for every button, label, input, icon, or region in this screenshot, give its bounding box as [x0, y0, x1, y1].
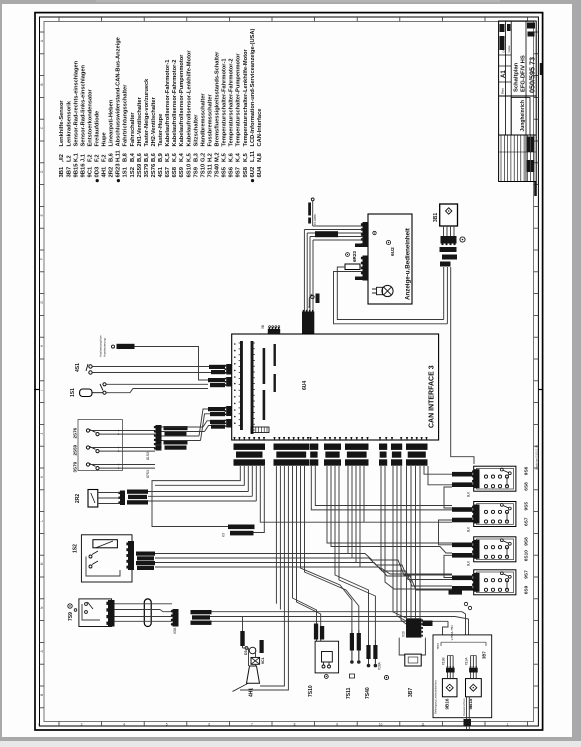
- svg-text:B,6: B,6: [109, 153, 115, 162]
- svg-text:7S40: 7S40: [365, 687, 371, 699]
- title block outline: [499, 21, 537, 182]
- svg-text:Fahrschalter: Fahrschalter: [130, 112, 136, 147]
- switch 7S40 Bremsfluessigkeitsstand: [368, 640, 370, 664]
- svg-text:1S2: 1S2: [73, 544, 79, 553]
- title block revision entries: [527, 137, 530, 153]
- svg-text:6S7: 6S7: [165, 166, 171, 177]
- wires XG8 to contactor block 1: [424, 466, 452, 474]
- wire CAN-L Anzeige to 3B1: [334, 272, 448, 324]
- svg-text:Bremsfluessigkeitsstands-Schal: Bremsfluessigkeitsstands-Schalter: [215, 51, 221, 147]
- connector XG3 on 6U4 bottom edge: [309, 437, 311, 441]
- connector XG6 on 6U4 bottom edge: [379, 437, 381, 441]
- svg-text:7B76: 7B76: [436, 643, 440, 650]
- wire CAN-H Anzeige to 3B1: [360, 266, 363, 268]
- svg-text:Handbremsschalter: Handbremsschalter: [200, 93, 206, 147]
- svg-text:3B7: 3B7: [482, 651, 487, 659]
- svg-text:Taster-Hupe: Taster-Hupe: [158, 114, 164, 147]
- connector X7 on CAN interface top: [302, 312, 314, 335]
- vertical wires down to connector X7: [303, 230, 305, 313]
- svg-text:Blatt: Blatt: [501, 88, 505, 94]
- svg-text:9S7: 9S7: [236, 166, 242, 177]
- frame grid tick marks: [40, 31, 45, 33]
- switch 4S1 Taster-Hupe: [89, 365, 92, 368]
- wire label bundle Anzeige: [315, 231, 338, 237]
- svg-text:L: L: [40, 520, 44, 522]
- svg-text:2H2-Ventilschalter: 2H2-Ventilschalter: [151, 96, 157, 146]
- wire labels 7S10: [314, 624, 318, 640]
- svg-text:1S1: 1S1: [70, 388, 76, 397]
- sensor 9B15 Sensor-Rad-rechts: [466, 679, 482, 697]
- wires XG2 down to brake switches: [275, 466, 277, 604]
- connector X31 under 3B1: [441, 236, 457, 244]
- capacitor 9C1 Entstoerkondensator: [251, 657, 260, 664]
- svg-text:EFG-DF/V HS: EFG-DF/V HS: [521, 55, 527, 92]
- svg-text:B,K: B,K: [467, 560, 471, 566]
- svg-text:Temperaturschalter-Pumpenmotor: Temperaturschalter-Pumpenmotor: [236, 53, 242, 147]
- wires 3S79 contacts: [90, 464, 155, 466]
- svg-text:Kabelaufrollsensor-Pumpenmotor: Kabelaufrollsensor-Pumpenmotor: [179, 54, 185, 147]
- wires 1S2 to pump contactor blocks: [155, 554, 452, 576]
- wires 7S9 to X58: [115, 603, 173, 605]
- svg-text:6S10: 6S10: [524, 550, 530, 562]
- internal pin strip 2 of 6U4: [251, 341, 254, 434]
- wire labels B1: [452, 472, 473, 477]
- svg-text:X20: X20: [402, 631, 406, 637]
- resistor 6R23 terminating resistor: [345, 264, 360, 270]
- connector X9 2R2: [120, 491, 125, 506]
- svg-text:Linearpoti-Heben: Linearpoti-Heben: [109, 99, 115, 146]
- sensor block 6S9 9S7: [474, 570, 516, 595]
- svg-text:CAN INTERFACE 3: CAN INTERFACE 3: [429, 365, 436, 428]
- svg-text:B,6: B,6: [151, 153, 157, 162]
- switch 2S76: [86, 429, 89, 432]
- bracket label L75A L75N: [441, 641, 486, 643]
- steering sensor box 9B15 9B16: [433, 635, 492, 718]
- switch contact in 6S8: [500, 468, 503, 471]
- svg-text:9S6: 9S6: [524, 466, 530, 475]
- svg-text:X19B: X19B: [441, 657, 445, 665]
- wires X58 to steering sensors: [212, 611, 463, 613]
- wire labels under XG1: [228, 525, 255, 530]
- connector X4d on 6U4 left edge: [226, 419, 232, 428]
- svg-text:3B7: 3B7: [408, 688, 414, 697]
- svg-text:Aussteuerung: Aussteuerung: [103, 338, 107, 357]
- svg-text:9C1: 9C1: [261, 657, 265, 664]
- connector XG2 on 6U4 bottom edge: [273, 437, 275, 441]
- svg-text:Sensor-Rad-rechts-einschlagen: Sensor-Rad-rechts-einschlagen: [73, 60, 79, 146]
- switch group box 2S59 3S79 2S76: [78, 420, 122, 471]
- node CAN junction: [308, 306, 310, 308]
- svg-text:F: F: [40, 258, 44, 260]
- svg-text:3B7: 3B7: [66, 166, 72, 178]
- wire labels X58: [191, 610, 212, 614]
- svg-text:B,K: B,K: [467, 491, 471, 497]
- jumper loop block1 to block2: [444, 487, 452, 508]
- wires XG1 to 2R2 and 1S2: [152, 466, 240, 527]
- switch contact in 6S7: [500, 504, 503, 507]
- potentiometer inside 1S2: [93, 540, 118, 548]
- connector XG1 on 6U4 bottom edge: [233, 437, 235, 441]
- svg-text:M,2: M,2: [215, 153, 221, 162]
- internal mini connector of 6U4: [251, 427, 269, 433]
- svg-text:Sensor-Rad-links-einschlagen: Sensor-Rad-links-einschlagen: [80, 64, 86, 146]
- svg-text:K,4: K,4: [179, 152, 185, 162]
- component 3B7 Lenkradsensorik: [399, 638, 405, 655]
- svg-text:B,6: B,6: [144, 153, 150, 162]
- svg-text:9: 9: [336, 723, 338, 727]
- wires 2R2 to 6U4 field: [98, 492, 120, 494]
- svg-text:3B: 3B: [261, 325, 265, 329]
- svg-text:3: 3: [81, 723, 83, 727]
- jumper loop block3 to block4: [444, 555, 452, 577]
- wire labels X4a: [209, 365, 225, 369]
- junction dots switch group: [118, 430, 120, 432]
- svg-text:I: I: [40, 390, 44, 391]
- svg-text:L2: L2: [66, 155, 72, 162]
- svg-text:Fussbremsschalter: Fussbremsschalter: [207, 94, 213, 147]
- svg-text:6R23: 6R23: [116, 163, 122, 178]
- wires XG4 to contactor blocks: [327, 466, 452, 543]
- svg-text:H,2: H,2: [207, 153, 213, 162]
- legend entry 6R23: [117, 179, 120, 182]
- svg-text:B,K: B,K: [467, 526, 471, 532]
- connector XG8 on 6U4 bottom edge: [406, 437, 408, 441]
- svg-text:7S11: 7S11: [346, 687, 352, 699]
- svg-text:2S59: 2S59: [73, 444, 78, 455]
- svg-text:6U2: 6U2: [390, 247, 396, 256]
- svg-text:B,8: B,8: [123, 153, 129, 162]
- sensor block 6S10 9S8: [474, 537, 516, 562]
- svg-text:6S8: 6S8: [524, 482, 530, 491]
- svg-text:K,5: K,5: [243, 153, 249, 162]
- svg-text:Name: Name: [507, 45, 511, 52]
- svg-text:87SX: 87SX: [146, 469, 150, 478]
- svg-text:6: 6: [208, 723, 210, 727]
- svg-text:81SX: 81SX: [146, 451, 150, 460]
- svg-text:6S9: 6S9: [524, 585, 530, 594]
- svg-text:9B15: 9B15: [73, 163, 79, 178]
- supply stub with terminal above: [312, 201, 314, 226]
- svg-text:Ersatz fuer E 515 11.98: Ersatz fuer E 515 11.98: [536, 444, 539, 470]
- title block revision grid: [500, 135, 502, 182]
- svg-text:Kabelaufrollsensor-Fahrmotor-1: Kabelaufrollsensor-Fahrmotor-1: [165, 60, 171, 147]
- svg-text:6U2: 6U2: [250, 166, 256, 178]
- connector X19B: [446, 668, 455, 673]
- svg-text:4S1: 4S1: [75, 363, 81, 372]
- svg-text:,/I2: ,/I2: [59, 154, 65, 162]
- switch contact in 6S9: [500, 572, 503, 575]
- wire labels 2R2: [127, 490, 148, 494]
- frame centre marks: [538, 389, 543, 391]
- svg-text:2S76: 2S76: [73, 427, 78, 438]
- connector X20 3B7 sensor: [406, 618, 421, 637]
- connector X19A: [469, 668, 478, 673]
- svg-text:Temperaturschalter-Fahrmotor-1: Temperaturschalter-Fahrmotor-1: [222, 58, 228, 146]
- svg-text:X28A: X28A: [378, 661, 382, 670]
- switch 1S1 Fahrtrichtungsschalter: [80, 389, 92, 397]
- svg-text:N,8: N,8: [257, 153, 263, 162]
- svg-text:2S76: 2S76: [151, 163, 157, 177]
- wire labels X4d: [210, 420, 225, 424]
- wires XG7 XG8 to 3B7: [406, 466, 408, 618]
- svg-text:2S59: 2S59: [137, 163, 143, 177]
- svg-text:4H1: 4H1: [249, 688, 255, 697]
- connector XG5 on 6U4 bottom edge: [345, 437, 347, 441]
- svg-text:B,9: B,9: [158, 153, 164, 162]
- wires X6 to X4c X4d: [162, 426, 204, 428]
- svg-text:K,5: K,5: [165, 153, 171, 162]
- connector X2 on Anzeige box lower: [363, 256, 369, 281]
- wire labels X6: [164, 426, 188, 430]
- svg-text:6R23: 6R23: [352, 251, 357, 262]
- svg-text:1S1: 1S1: [123, 166, 129, 177]
- svg-text:CAN-Interface: CAN-Interface: [257, 109, 263, 147]
- svg-text:Kabelaufrollsensor-Fahrmotor-2: Kabelaufrollsensor-Fahrmotor-2: [172, 60, 178, 147]
- wires horn cluster: [248, 648, 250, 666]
- svg-text:´L75A/L75N: ´L75A/L75N: [450, 625, 454, 641]
- svg-text:B: B: [40, 694, 44, 696]
- svg-text:3B1: 3B1: [59, 166, 65, 178]
- connector XG7 on 6U4 bottom edge: [391, 437, 393, 441]
- wire labels 1S2: [136, 552, 155, 556]
- wire 3B1 pin3 down to CAN pair: [446, 267, 448, 324]
- svg-text:F,2: F,2: [102, 154, 108, 162]
- svg-text:7S9: 7S9: [68, 612, 74, 621]
- svg-text:B,6: B,6: [137, 153, 143, 162]
- svg-text:15-06BK: 15-06BK: [313, 214, 317, 225]
- svg-text:2R2: 2R2: [109, 166, 115, 178]
- connector X5 on CAN interface top edge: [268, 329, 280, 334]
- wire terminal 15A to 6U4: [135, 347, 209, 381]
- wire 3B1 pin2 down to CAN pair: [443, 267, 445, 320]
- svg-text:K,1: K,1: [73, 153, 79, 162]
- svg-text:Datum: Datum: [502, 45, 506, 53]
- svg-text:5: 5: [166, 723, 168, 727]
- svg-text:3B1: 3B1: [433, 213, 439, 222]
- internal pin strip 1 of 6U4: [240, 341, 243, 430]
- svg-text:Freilaufdiode: Freilaufdiode: [95, 111, 101, 147]
- component 6U2 Anzeige-u.Bedieneinheit box: [368, 214, 412, 304]
- svg-text:7S11: 7S11: [207, 163, 213, 177]
- svg-text:Taster-Neige-vor/zurueck: Taster-Neige-vor/zurueck: [144, 78, 150, 147]
- switch 2S59: [86, 446, 89, 449]
- svg-text:9S8: 9S8: [243, 166, 249, 177]
- wire to horn cluster: [242, 617, 244, 649]
- component 3B1 Lenkhilfe-Sensor: [440, 204, 458, 226]
- wire 1S1 to X4b: [106, 383, 208, 385]
- svg-text:9S7: 9S7: [524, 570, 530, 579]
- svg-text:F,2: F,2: [87, 154, 93, 162]
- svg-text:K,6: K,6: [172, 153, 178, 162]
- micro text strip beside frame: [540, 63, 542, 75]
- svg-text:7S9: 7S9: [193, 166, 199, 177]
- legend entry 0D3: [96, 179, 99, 182]
- svg-text:4S1: 4S1: [158, 166, 164, 177]
- svg-text:H,11: H,11: [116, 150, 122, 162]
- svg-text:F,2: F,2: [95, 154, 101, 162]
- symbol CAN net label: [311, 295, 314, 298]
- terminal 15A with label: [112, 345, 115, 348]
- diode 0D3 Freilaufdiode: [249, 647, 256, 654]
- svg-text:J,1: J,1: [80, 154, 86, 162]
- drawing frame inner tick border: [44, 21, 534, 721]
- svg-text:8: 8: [294, 723, 296, 727]
- svg-text:6S9: 6S9: [179, 166, 185, 177]
- switch 7S10 Handbremsschalter box: [315, 641, 339, 673]
- svg-text:2H1-Ventilschalter: 2H1-Ventilschalter: [137, 96, 143, 146]
- connector X58: [173, 609, 179, 627]
- svg-text:X58: X58: [173, 628, 177, 634]
- svg-text:9S5: 9S5: [524, 502, 530, 511]
- svg-text:Masseanschluss: Masseanschluss: [463, 698, 466, 716]
- svg-text:4H1: 4H1: [102, 166, 108, 178]
- potentiometer 2R2 Linearpoti-Heben: [88, 490, 98, 508]
- connector X4a on 6U4 left edge: [226, 364, 232, 375]
- wires 2S76 contacts: [90, 430, 155, 432]
- svg-text:2: 2: [38, 723, 40, 727]
- wire labels X4b: [208, 378, 225, 382]
- svg-text:L,11: L,11: [250, 151, 256, 162]
- svg-text:Anzeige-u.Bedieneinheit: Anzeige-u.Bedieneinheit: [405, 228, 412, 300]
- symbol 6U2 display: [386, 240, 390, 244]
- buzzer symbol in Anzeige box: [382, 285, 393, 296]
- svg-text:7S10: 7S10: [200, 163, 206, 177]
- sensor block 6S8 9S6: [474, 466, 516, 491]
- edge pin dots inside 6U4: [234, 343, 236, 345]
- svg-text:LCD-Information-und-Serviceanz: LCD-Information-und-Serviceanzeige-(USA): [250, 29, 256, 147]
- svg-text:9C1: 9C1: [87, 166, 93, 178]
- svg-text:4: 4: [123, 723, 125, 727]
- svg-text:K,6: K,6: [229, 153, 235, 162]
- svg-text:Temperaturschalter-Lenkhilfe-M: Temperaturschalter-Lenkhilfe-Motor: [243, 48, 249, 146]
- svg-text:B,4: B,4: [130, 152, 136, 162]
- svg-text:10: 10: [379, 723, 383, 727]
- svg-text:6S8: 6S8: [172, 166, 178, 177]
- svg-text:0D3: 0D3: [95, 166, 101, 178]
- svg-text:9S5: 9S5: [222, 166, 228, 177]
- connector X11 7S9: [108, 600, 115, 627]
- svg-text:Jungheinrich: Jungheinrich: [520, 100, 526, 131]
- svg-text:9S6: 9S6: [229, 166, 235, 177]
- wires XG6 to block 4: [381, 466, 452, 574]
- svg-text:Hupe: Hupe: [102, 132, 108, 146]
- contacts inside 7S9: [85, 603, 88, 606]
- internal pin strip 4 of 6U4: [274, 344, 276, 366]
- svg-text:3S79: 3S79: [144, 163, 150, 177]
- svg-text:Lenkhilfe-Sensor: Lenkhilfe-Sensor: [59, 100, 65, 147]
- wire labels B2: [452, 507, 473, 512]
- svg-text:3S79: 3S79: [73, 461, 78, 472]
- op-amp U1 CAN interface unit 6U4 box: [232, 334, 439, 440]
- svg-text:7: 7: [251, 723, 253, 727]
- terminal symbol right of 3B1 connector: [460, 237, 465, 242]
- svg-text:1: 1: [507, 723, 509, 727]
- svg-text:7S10: 7S10: [308, 685, 314, 697]
- svg-text:E: E: [40, 214, 44, 216]
- svg-text:Kabelaufrollsensor-Lenkhilfe-M: Kabelaufrollsensor-Lenkhilfe-Motor: [186, 50, 192, 147]
- wires XG5 down: [347, 466, 349, 554]
- switch 7S11 Fussbremsschalter: [351, 630, 353, 661]
- capsule connector X58A: [144, 599, 151, 627]
- svg-text:9B16: 9B16: [445, 698, 450, 709]
- wire 4S1 contacts to X4a: [92, 366, 209, 368]
- switch contact in 6S10: [500, 539, 503, 542]
- svg-text:Fahrtrichtungsschalter: Fahrtrichtungsschalter: [123, 84, 129, 147]
- svg-text:2R2: 2R2: [75, 494, 81, 503]
- svg-text:Temperaturschalter-Fahrmotor-2: Temperaturschalter-Fahrmotor-2: [229, 58, 235, 146]
- svg-text:6S7: 6S7: [524, 517, 530, 526]
- svg-text:6S10: 6S10: [186, 163, 192, 177]
- svg-text:Befestigung Lenksaeulenfuss: Befestigung Lenksaeulenfuss: [434, 679, 438, 714]
- svg-text:B,3: B,3: [193, 153, 199, 162]
- wire labels B3: [452, 543, 473, 548]
- legend entry 6U2: [251, 179, 254, 182]
- connector X4b on 6U4 left edge: [226, 377, 232, 387]
- connector X10 1S2: [128, 541, 134, 570]
- svg-text:7S40: 7S40: [215, 163, 221, 177]
- connector XG4 on 6U4 bottom edge: [324, 437, 326, 441]
- svg-text:D3: D3: [244, 650, 248, 655]
- svg-text:9B16: 9B16: [80, 163, 86, 178]
- wire labels B4: [452, 576, 473, 581]
- wire bundle Anzeige to CAN interface: [313, 225, 363, 227]
- svg-text:K,4: K,4: [236, 152, 242, 162]
- svg-text:Sitzschalter: Sitzschalter: [193, 114, 199, 147]
- switch contacts inside 1S2: [89, 555, 92, 558]
- svg-text:K3: K3: [222, 533, 226, 537]
- svg-text:6U4: 6U4: [302, 381, 308, 390]
- wire 3B1 pin4 down to sensor block region: [451, 267, 474, 464]
- wire labels under 3B1: [440, 247, 457, 252]
- switch 3S79: [86, 463, 89, 466]
- svg-text:B: B: [40, 83, 44, 85]
- svg-text:9B15: 9B15: [468, 698, 473, 709]
- jumper loop block2 to block3: [439, 520, 453, 545]
- svg-text:050/595 73: 050/595 73: [528, 57, 537, 93]
- wires XG3 to contactor block 2: [311, 466, 452, 510]
- svg-text:9S8: 9S8: [524, 537, 530, 546]
- title block small header cells: [500, 24, 505, 32]
- sensor 9B16 Sensor-Rad-links: [442, 679, 457, 697]
- svg-text:X19A: X19A: [464, 657, 468, 666]
- svg-text:G,2: G,2: [200, 153, 206, 162]
- contacts 7S10: [322, 665, 325, 668]
- svg-text:11: 11: [421, 723, 425, 727]
- svg-text:Lenkradsensorik: Lenkradsensorik: [66, 100, 72, 146]
- sensor block 6S7 9S5: [474, 502, 516, 527]
- circled terminals near 9B15 box: [464, 602, 467, 605]
- connector X4c on 6U4 left edge: [226, 406, 232, 416]
- connector X6 switch group: [156, 425, 162, 451]
- internal pin strip 3 of 6U4: [263, 348, 266, 384]
- svg-text:Entstoerkondensator: Entstoerkondensator: [87, 89, 93, 147]
- horn 4H1 Hupe: [247, 666, 260, 683]
- wires 3B1 to connector: [443, 226, 445, 236]
- connector X1 on Anzeige box upper: [363, 222, 369, 247]
- ground wires to frame: [466, 697, 468, 729]
- box 1S2 Fahrschalter: [81, 535, 132, 582]
- svg-text:M: M: [40, 562, 44, 565]
- wire labels near 9B15 box top: [449, 590, 463, 595]
- svg-text:A1: A1: [501, 70, 507, 78]
- switch 7S9 Sitzschalter box: [79, 599, 112, 627]
- svg-text:Abschlusswiderstand-CAN-Bus-An: Abschlusswiderstand-CAN-Bus-Anzeige: [116, 37, 122, 146]
- svg-text:6U4: 6U4: [257, 166, 263, 178]
- wire labels X4c: [208, 407, 225, 411]
- svg-text:1S2: 1S2: [130, 166, 136, 177]
- svg-text:Schaltplan: Schaltplan: [514, 62, 520, 92]
- svg-text:K,5: K,5: [222, 153, 228, 162]
